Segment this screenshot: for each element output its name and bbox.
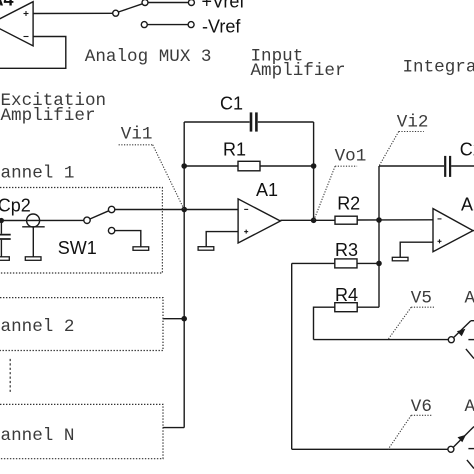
svg-text:A6: A6 [465, 397, 474, 417]
svg-text:A2: A2 [461, 195, 474, 215]
svg-text:Amplifier: Amplifier [251, 61, 346, 81]
svg-text:Cp2: Cp2 [0, 195, 31, 215]
svg-text:Channel 2: Channel 2 [0, 317, 74, 337]
svg-text:-Vref: -Vref [202, 17, 241, 37]
svg-text:Vi2: Vi2 [397, 112, 429, 132]
svg-text:V5: V5 [411, 288, 432, 308]
svg-text:R4: R4 [335, 285, 358, 305]
svg-text:Analog MUX 3: Analog MUX 3 [85, 47, 212, 67]
svg-text:A1: A1 [256, 180, 278, 200]
svg-text:SW1: SW1 [58, 238, 97, 258]
svg-text:C1: C1 [220, 93, 243, 113]
svg-text:Channel N: Channel N [0, 426, 74, 446]
svg-text:Vi1: Vi1 [121, 125, 153, 145]
svg-text:A5: A5 [465, 288, 474, 308]
svg-text:R2: R2 [337, 194, 360, 214]
svg-text:Integrat: Integrat [403, 58, 474, 78]
svg-text:Vo1: Vo1 [335, 147, 367, 167]
svg-text:R1: R1 [223, 140, 246, 160]
svg-text:A4: A4 [0, 0, 14, 9]
svg-text:Channel 1: Channel 1 [0, 164, 74, 184]
svg-text:R3: R3 [335, 240, 358, 260]
svg-text:Amplifier: Amplifier [1, 106, 96, 126]
svg-text:+Vref: +Vref [202, 0, 246, 12]
svg-text:C2: C2 [460, 139, 474, 159]
svg-text:V6: V6 [411, 397, 432, 417]
